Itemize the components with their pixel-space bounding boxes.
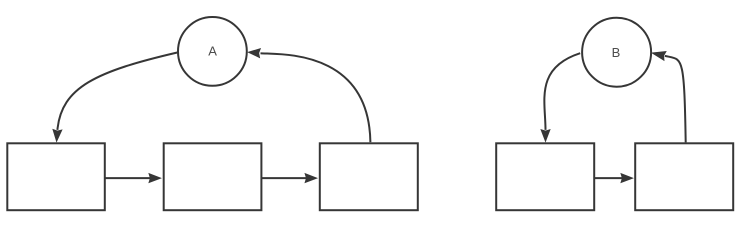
svg-text:B: B xyxy=(612,45,621,60)
box 5 (right group, second rectangle) xyxy=(635,143,733,210)
svg-text:A: A xyxy=(208,44,217,59)
box 3 (left group, third rectangle) xyxy=(320,143,418,210)
circle A xyxy=(178,17,247,86)
box 2 (left group, second rectangle) xyxy=(164,143,262,210)
wire: arrow box2 -> box3 xyxy=(262,174,317,183)
wire: curved arrow box3 -> circle A (up-left) xyxy=(249,49,371,142)
wire: curved arrow circle B -> box4 (down-left) xyxy=(541,53,580,141)
box 1 (left group, first rectangle) xyxy=(7,143,105,210)
wire: arrow box1 -> box2 xyxy=(105,174,160,183)
wire: arrow box4 -> box5 xyxy=(595,174,633,183)
circle B xyxy=(582,18,651,87)
wire: curved arrow circle A -> box1 (down-left) xyxy=(53,53,177,142)
wire: curved arrow box5 -> circle B (up-left) xyxy=(652,52,685,143)
box 4 (right group, first rectangle) xyxy=(496,143,594,210)
